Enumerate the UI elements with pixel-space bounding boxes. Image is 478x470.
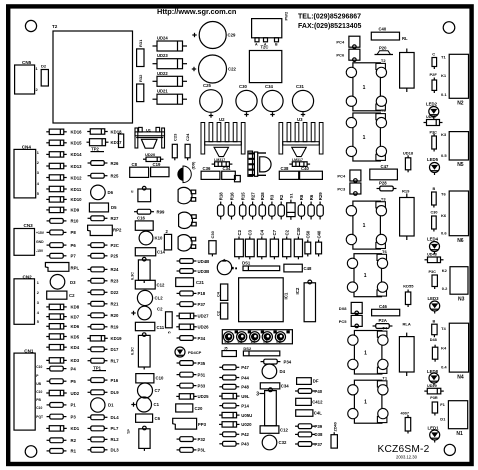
capacitor C3B — [431, 211, 438, 232]
capacitor C11 — [135, 322, 164, 330]
svg-text:K6: K6 — [441, 213, 447, 218]
svg-text:R1: R1 — [71, 449, 77, 454]
svg-text:R19: R19 — [111, 325, 119, 330]
svg-text:C25: C25 — [203, 83, 211, 88]
svg-text:C30: C30 — [239, 84, 247, 89]
svg-text:P34: P34 — [284, 359, 292, 364]
svg-text:C40: C40 — [379, 27, 387, 32]
svg-text:C30: C30 — [431, 211, 438, 215]
transistor D9 — [177, 161, 195, 183]
transformer T2 label — [52, 24, 58, 29]
pad W1 — [222, 347, 236, 357]
svg-text:R2: R2 — [279, 194, 284, 200]
resistor R20 — [88, 313, 119, 318]
potentiometer RPL — [45, 263, 79, 272]
svg-text:KD4: KD4 — [71, 345, 80, 350]
svg-text:0.1: 0.1 — [441, 92, 447, 97]
resistor R27 — [88, 216, 119, 221]
svg-text:CN3: CN3 — [24, 223, 34, 228]
svg-text:GND: GND — [36, 240, 44, 244]
connector N1 — [440, 401, 467, 437]
svg-text:U2: U2 — [219, 117, 225, 122]
svg-text:Http://www.sgr.com.cn: Http://www.sgr.com.cn — [157, 7, 237, 16]
capacitor C12 — [135, 280, 165, 289]
svg-text:C30: C30 — [296, 227, 301, 235]
diode KD6 — [46, 324, 79, 330]
svg-text:LED3: LED3 — [428, 296, 440, 301]
optocoupler T6 — [347, 249, 387, 297]
resistor R2 — [278, 194, 284, 219]
capacitor D3 — [50, 275, 76, 290]
capacitor C3 — [245, 229, 254, 259]
diode KD19 — [87, 336, 122, 342]
svg-text:1: 1 — [37, 281, 39, 285]
capacitor D1 — [91, 398, 115, 412]
resistor PL7 — [88, 426, 119, 431]
svg-text:D6: D6 — [108, 190, 114, 195]
resistor DL4 — [88, 415, 120, 420]
capacitor C21 — [176, 278, 205, 287]
svg-text:B: B — [433, 320, 436, 324]
svg-text:K2: K2 — [442, 268, 448, 273]
svg-text:R99: R99 — [157, 210, 165, 215]
mounting hole bottom-right — [444, 444, 455, 455]
capacitor C63 — [131, 257, 151, 283]
resistor R25 — [88, 173, 119, 178]
svg-text:KD15: KD15 — [71, 141, 83, 146]
board name KCZ6SM-2 — [378, 444, 430, 455]
resistor P39 — [295, 424, 323, 429]
svg-text:D38: D38 — [315, 432, 323, 437]
relay RL1 — [400, 49, 415, 93]
svg-text:KD16: KD16 — [71, 130, 83, 135]
svg-text:C1: C1 — [154, 402, 160, 407]
svg-text:C7: C7 — [272, 229, 277, 235]
resistor P33 — [177, 383, 206, 388]
diode KD18 — [87, 129, 122, 135]
resistor P16 — [88, 378, 119, 383]
diode UD2 — [46, 390, 79, 396]
svg-text:PC3: PC3 — [337, 187, 346, 192]
svg-text:DS2: DS2 — [243, 346, 252, 351]
resistor RL2 — [88, 437, 120, 442]
capacitor C1 — [131, 397, 159, 412]
capacitor C24 — [185, 133, 190, 160]
svg-text:C47: C47 — [381, 164, 389, 169]
pad PC3 — [337, 183, 361, 195]
resistor UD18 — [403, 151, 414, 173]
svg-text:D17: D17 — [111, 347, 119, 352]
resistor P37c — [295, 442, 323, 447]
date text — [396, 455, 418, 460]
transistor Q3 — [178, 235, 196, 251]
svg-text:B: B — [275, 43, 278, 47]
svg-text:LED2: LED2 — [426, 102, 438, 107]
svg-text:U020: U020 — [241, 422, 252, 427]
pad DX8 — [339, 302, 363, 314]
svg-text:R15: R15 — [241, 192, 246, 200]
heatsink U1 — [135, 127, 165, 148]
svg-text:LED5: LED5 — [427, 157, 439, 162]
resistor P34c — [261, 359, 292, 364]
svg-text:R23: R23 — [111, 279, 119, 284]
regulator Q-U1 — [141, 139, 157, 148]
svg-text:PQT: PQT — [36, 415, 43, 419]
svg-text:P7: P7 — [71, 254, 77, 259]
svg-text:0.4: 0.4 — [441, 365, 447, 370]
svg-text:U3: U3 — [297, 117, 303, 122]
capacitor C36 — [201, 166, 220, 179]
svg-text:TEL:(029)85296867: TEL:(029)85296867 — [298, 13, 361, 20]
pad PC4 — [336, 36, 360, 48]
svg-text:C4: C4 — [260, 229, 265, 235]
transformer T2 — [53, 31, 133, 123]
svg-text:UB: UB — [36, 382, 41, 386]
svg-text:P28: P28 — [379, 181, 387, 186]
svg-text:C36: C36 — [203, 166, 211, 171]
resistor P8 — [47, 230, 77, 235]
svg-text:K4: K4 — [441, 346, 447, 351]
svg-text:UD25: UD25 — [198, 394, 210, 399]
capacitor C4v — [217, 284, 228, 300]
capacitor C47 — [370, 164, 398, 180]
connector N5 — [441, 132, 469, 169]
resistor DL9 — [88, 390, 120, 395]
svg-text:R19: R19 — [402, 189, 410, 194]
svg-text:C24: C24 — [185, 133, 190, 141]
resistor P24B — [177, 259, 210, 264]
capacitor C8 — [130, 162, 149, 177]
svg-text:CN5: CN5 — [22, 60, 32, 65]
crystal Y1 — [287, 193, 295, 220]
svg-text:P39: P39 — [315, 424, 323, 429]
svg-text:0.1: 0.1 — [263, 340, 268, 344]
capacitor C48 — [284, 264, 312, 272]
svg-text:R20: R20 — [111, 313, 119, 318]
resistor P43 — [219, 441, 249, 446]
resistor R24 — [88, 267, 119, 272]
capacitor D4 — [262, 364, 286, 379]
svg-text:D48: D48 — [430, 338, 437, 342]
diode KD12 — [46, 175, 82, 181]
svg-text:R31: R31 — [138, 39, 143, 47]
resistor R18 — [218, 192, 224, 220]
resistor P3 — [47, 414, 77, 419]
svg-text:N5: N5 — [457, 162, 464, 168]
svg-text:P2C: P2C — [111, 243, 119, 248]
capacitor C2b — [131, 306, 163, 320]
svg-text:0.2: 0.2 — [225, 340, 230, 344]
connector CN3 label — [24, 223, 34, 228]
svg-text:UD3B: UD3B — [198, 269, 210, 274]
diode UD21 — [153, 89, 188, 105]
capacitor C2v — [217, 303, 228, 319]
svg-text:KD6: KD6 — [71, 324, 80, 329]
svg-text:KD8: KD8 — [71, 305, 80, 310]
capacitor C34b — [222, 166, 236, 179]
svg-text:P44: P44 — [241, 375, 249, 380]
svg-text:P37: P37 — [198, 302, 206, 307]
heatsink U2 — [201, 117, 245, 154]
connector CN2 — [14, 279, 40, 325]
diode UD23 — [153, 53, 188, 68]
svg-text:C10: C10 — [36, 406, 42, 410]
svg-text:C40: C40 — [316, 230, 321, 238]
socket J1 — [248, 151, 271, 176]
diode KD1 — [46, 426, 79, 432]
svg-text:KD5: KD5 — [71, 334, 80, 339]
svg-text:P40: P40 — [315, 389, 323, 394]
svg-text:J5: J5 — [224, 347, 228, 351]
capacitor C40 — [371, 27, 408, 42]
svg-text:T5: T5 — [381, 108, 386, 113]
svg-text:R16: R16 — [229, 192, 234, 200]
capacitor C9 — [127, 426, 150, 451]
resistor R15 — [240, 192, 246, 220]
svg-text:T1: T1 — [382, 375, 387, 380]
relay T2C — [249, 51, 281, 83]
svg-text:R8: R8 — [299, 194, 304, 200]
pad W2 — [235, 176, 241, 182]
svg-text:T2C: T2C — [261, 45, 269, 50]
display DS2 — [243, 346, 279, 356]
svg-text:P35: P35 — [198, 361, 206, 366]
regulator Q-U2 — [214, 147, 229, 162]
LED LED3 — [428, 296, 440, 313]
resistor R32 — [137, 74, 144, 102]
LED bar D-row — [222, 330, 292, 344]
svg-text:C31: C31 — [296, 84, 304, 89]
svg-text:C2: C2 — [285, 229, 290, 235]
svg-text:6.3C: 6.3C — [131, 347, 135, 355]
svg-text:2: 2 — [37, 291, 39, 295]
svg-text:6.3C: 6.3C — [131, 272, 135, 280]
svg-text:LED4: LED4 — [427, 237, 439, 242]
capacitor C29 — [192, 22, 236, 49]
fax text — [298, 23, 362, 30]
capacitor C4L — [296, 410, 323, 417]
capacitor C6 — [136, 414, 161, 422]
diode UD40 — [424, 115, 443, 126]
svg-text:C11: C11 — [157, 325, 165, 330]
svg-text:D2: D2 — [41, 64, 47, 69]
svg-text:UD23: UD23 — [157, 53, 168, 58]
svg-text:P47: P47 — [241, 365, 249, 370]
svg-text:KD13: KD13 — [71, 164, 83, 169]
svg-text:1: 1 — [363, 135, 366, 141]
connector CN1 label — [24, 349, 34, 354]
svg-text:P6: P6 — [71, 243, 77, 248]
capacitor K10 — [139, 231, 163, 245]
svg-text:R29: R29 — [318, 192, 323, 200]
svg-text:P32: P32 — [198, 437, 206, 442]
resistor R8 — [298, 194, 304, 219]
svg-text:KD55: KD55 — [403, 284, 414, 289]
optocoupler T1 — [348, 375, 388, 423]
capacitor C10 — [136, 374, 164, 383]
svg-text:R26: R26 — [111, 161, 119, 166]
svg-text:RL2: RL2 — [111, 437, 120, 442]
svg-text:A: A — [255, 43, 258, 47]
svg-text:DL3: DL3 — [111, 448, 120, 453]
svg-text:P42: P42 — [241, 432, 249, 437]
svg-text:C23: C23 — [173, 133, 178, 141]
svg-text:P43: P43 — [241, 442, 249, 447]
svg-text:PD4CP: PD4CP — [188, 350, 202, 355]
svg-text:LED8: LED8 — [427, 369, 439, 374]
capacitor C12b — [260, 426, 288, 434]
svg-text:1: 1 — [37, 151, 39, 155]
display DS1 — [242, 260, 280, 270]
svg-text:S1: S1 — [289, 193, 294, 199]
resistor D2B — [177, 269, 210, 274]
svg-text:F1: F1 — [440, 402, 445, 407]
connector CN4 label — [22, 145, 32, 150]
svg-text:P20: P20 — [379, 46, 387, 51]
resistor R4007 — [401, 412, 411, 434]
svg-text:N2: N2 — [457, 101, 464, 107]
svg-text:P18: P18 — [198, 291, 206, 296]
diode KD14 — [46, 152, 82, 158]
svg-text:UD18: UD18 — [403, 151, 414, 156]
svg-text:0.2: 0.2 — [442, 286, 448, 291]
svg-text:PL7: PL7 — [111, 426, 119, 431]
svg-text:2: 2 — [37, 161, 39, 165]
resistor D17 — [88, 347, 119, 352]
svg-text:P14: P14 — [241, 403, 249, 408]
resistor R5v — [166, 312, 173, 334]
diode UD26 — [176, 324, 209, 330]
diode UD19 — [212, 162, 233, 167]
diode UD29 — [424, 384, 444, 394]
resistor R28 — [259, 192, 265, 220]
svg-text:C2: C2 — [69, 293, 75, 298]
svg-text:PB: PB — [36, 398, 41, 402]
svg-text:P33: P33 — [198, 383, 206, 388]
capacitor C23 — [172, 133, 177, 160]
svg-text:C12: C12 — [280, 428, 288, 433]
IC IC1 — [239, 278, 289, 322]
svg-text:1: 1 — [364, 400, 367, 406]
svg-text:C46: C46 — [379, 304, 387, 309]
capacitor C40c — [316, 230, 322, 256]
svg-text:T1: T1 — [441, 55, 446, 60]
connector CN5 — [15, 65, 39, 94]
svg-text:C32: C32 — [279, 440, 287, 445]
optocoupler T3 — [346, 196, 386, 249]
capacitor C2c — [235, 229, 244, 259]
svg-text:C38: C38 — [281, 166, 289, 171]
resistor R27 — [249, 192, 255, 220]
svg-text:C: C — [432, 52, 435, 57]
diode KD8 — [46, 304, 79, 310]
svg-text:5: 5 — [37, 192, 39, 196]
svg-text:P1: P1 — [71, 403, 77, 408]
resistor RL7 — [88, 358, 120, 363]
capacitor D48 — [430, 338, 438, 362]
capacitor C41 — [432, 52, 437, 70]
svg-text:C10: C10 — [36, 365, 42, 369]
svg-text:TP2: TP2 — [91, 147, 99, 152]
svg-text:ZD40: ZD40 — [334, 422, 338, 431]
diode UD48 — [425, 253, 444, 263]
svg-text:LED1: LED1 — [428, 425, 440, 430]
resistor P14 — [219, 403, 249, 408]
capacitor C50 — [305, 230, 311, 256]
resistor P3L — [177, 448, 206, 453]
capacitor C31 — [292, 84, 313, 117]
diode P20 — [375, 46, 394, 55]
resistor P2A — [373, 318, 393, 328]
svg-text:UD48: UD48 — [427, 253, 437, 257]
svg-text:DF: DF — [313, 379, 319, 384]
svg-text:C4L: C4L — [314, 411, 322, 416]
capacitor P3R — [430, 396, 438, 416]
diode UD25 — [176, 394, 209, 400]
svg-text:IC1: IC1 — [284, 292, 289, 299]
capacitor C412 — [296, 398, 323, 405]
svg-text:R6: R6 — [309, 194, 314, 200]
svg-text:KD1: KD1 — [71, 426, 80, 431]
svg-text:N3: N3 — [458, 296, 465, 302]
LED LED1 — [428, 425, 440, 442]
svg-text:UD2: UD2 — [71, 391, 80, 396]
svg-text:(D9): (D9) — [191, 161, 196, 169]
svg-text:C7: C7 — [155, 388, 161, 393]
capacitor C63b — [131, 333, 151, 370]
pad PC6 — [336, 49, 360, 61]
svg-text:KCZ6SM-2: KCZ6SM-2 — [378, 444, 430, 455]
pad PC5 — [339, 315, 363, 327]
resistor P31 — [177, 372, 206, 377]
resistor R33 — [119, 134, 124, 148]
test point TP1 — [93, 366, 107, 371]
svg-text:TP: TP — [127, 429, 131, 434]
svg-text:RLA: RLA — [403, 322, 411, 327]
capacitor C30v — [209, 230, 216, 256]
svg-text:D1: D1 — [108, 403, 114, 408]
resistor R2v — [164, 229, 171, 250]
diode U020 — [219, 422, 252, 428]
capacitor C7 — [138, 383, 161, 398]
svg-text:KD14: KD14 — [71, 152, 83, 157]
resistor R16 — [228, 192, 234, 220]
svg-text:KD3: KD3 — [71, 358, 80, 363]
svg-text:KD12: KD12 — [71, 175, 83, 180]
svg-text:P48: P48 — [241, 385, 249, 390]
resistor D22 — [88, 290, 119, 295]
svg-text:U1: U1 — [146, 127, 152, 132]
resistor P6 — [47, 243, 77, 248]
url text — [157, 7, 237, 16]
svg-text:P37: P37 — [315, 442, 323, 447]
svg-text:DS1: DS1 — [242, 260, 251, 265]
LED LED5 — [427, 157, 440, 175]
resistor P47 — [219, 365, 249, 370]
svg-text:R10: R10 — [71, 219, 79, 224]
svg-text:R28: R28 — [260, 192, 265, 200]
svg-text:C30: C30 — [210, 230, 215, 238]
connector N6 — [441, 191, 469, 244]
capacitor C40b — [300, 166, 323, 179]
regulator Q-U3 — [292, 147, 307, 162]
connector N2 — [441, 54, 469, 106]
resistor R3 — [269, 194, 275, 219]
svg-text:P3: P3 — [71, 414, 77, 419]
diode D2 — [41, 64, 48, 86]
svg-text:T4: T4 — [441, 326, 446, 331]
diode KD9 — [46, 207, 79, 213]
